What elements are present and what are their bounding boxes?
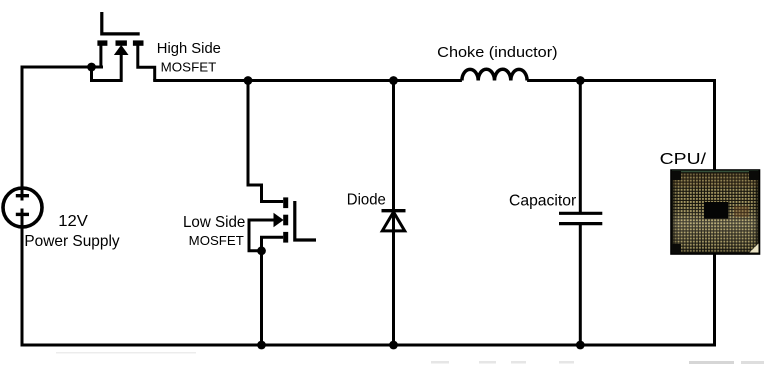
- wire: CPU top lead: [713, 81, 716, 172]
- wire: low-side drain path: [248, 81, 283, 202]
- CPU die: [704, 202, 728, 219]
- capacitor C1: top plate: [559, 212, 602, 215]
- wire: body tie from node down and right to arrow stem: [92, 53, 122, 81]
- wire: Q1 source stem down to node: [99, 45, 102, 69]
- diode D1: cathode bar: [382, 209, 406, 212]
- diode D1: triangle (anode, pointing up): [382, 212, 404, 231]
- CPU green top edge: [672, 171, 759, 173]
- power supply plus bar top: [16, 194, 29, 197]
- svg-text:MOSFET: MOSFET: [189, 233, 244, 248]
- Q1 pad source: [97, 40, 107, 45]
- node: bottom rail junction capacitor: [576, 341, 585, 350]
- capacitor C1: bottom plate: [559, 222, 602, 225]
- wire: Q1 drain stem stepping down to top rail: [138, 45, 155, 81]
- wire: capacitor branch lower: [579, 224, 582, 345]
- transistor Q2 low-side MOSFET: pad drain: [283, 197, 288, 208]
- CPU corner key top-right: [749, 171, 759, 180]
- svg-text:Capacitor: Capacitor: [509, 192, 577, 209]
- CPU warm tint top rows: [673, 173, 758, 187]
- inductor L1 choke: 4 humps: [462, 69, 527, 80]
- svg-text:High Side: High Side: [157, 40, 221, 57]
- node: top rail junction to capacitor: [576, 76, 585, 85]
- power supply plus bar bottom: [16, 213, 29, 216]
- node: top rail junction to diode: [389, 76, 398, 85]
- Q2 pad source: [283, 232, 288, 243]
- wire: capacitor branch upper: [579, 81, 582, 214]
- Q1 pad drain: [133, 40, 144, 45]
- svg-text:Power Supply: Power Supply: [24, 233, 119, 250]
- wire: top rail right of choke to right corner: [527, 81, 714, 171]
- wire: left rail top segment (12V supply to top-left corner): [22, 67, 103, 201]
- CPU corner key top-left: [672, 171, 681, 180]
- svg-text:Diode: Diode: [347, 192, 386, 209]
- CPU brown patch right of die: [734, 206, 749, 217]
- wire: bottom rail: [22, 254, 715, 345]
- node A: junction dot source/body tie: [87, 63, 96, 72]
- Q2 pad body: [283, 215, 288, 226]
- wire: Q2 source lead down to bottom rail: [262, 237, 284, 346]
- CPU pin grid: [673, 173, 758, 253]
- svg-text:MOSFET: MOSFET: [161, 60, 217, 75]
- svg-text:Choke (inductor): Choke (inductor): [437, 44, 557, 61]
- CPU shading overlay: [673, 173, 758, 253]
- Q1 body-diode arrow (points up): [114, 45, 129, 55]
- CPU edge vignette: [675, 175, 757, 252]
- wire: left rail bottom segment: [21, 209, 24, 347]
- node: Q2 source/body junction dot: [257, 246, 266, 255]
- svg-text:12V: 12V: [58, 213, 88, 230]
- CPU package photo: [671, 170, 760, 254]
- wire: Q2 body tie going left and down to source node: [249, 220, 275, 251]
- wire: top rail left of choke: [153, 79, 462, 82]
- Q2 gate plate and lead: [295, 201, 316, 240]
- power supply V1: 12V source circle: [3, 188, 42, 227]
- transistor Q1 high-side MOSFET: gate lead: [102, 12, 140, 34]
- node: top rail junction to low-side MOSFET: [244, 76, 253, 85]
- wire: CPU bottom lead: [713, 253, 716, 345]
- CPU corner key bottom-left: [672, 244, 681, 254]
- Q1 pad body: [116, 40, 127, 45]
- CPU body: [671, 170, 760, 254]
- wire: diode branch vertical: [392, 81, 395, 346]
- node: bottom rail junction low-side source: [257, 341, 266, 350]
- svg-text:Low Side: Low Side: [183, 214, 245, 231]
- Q2 body-diode arrow (points right): [274, 213, 284, 227]
- node: bottom rail junction diode: [389, 341, 398, 350]
- decorative faint cropped text at very bottom: [56, 352, 764, 364]
- svg-text:CPU/: CPU/: [660, 151, 707, 168]
- CPU corner triangle bottom-right: [750, 244, 759, 253]
